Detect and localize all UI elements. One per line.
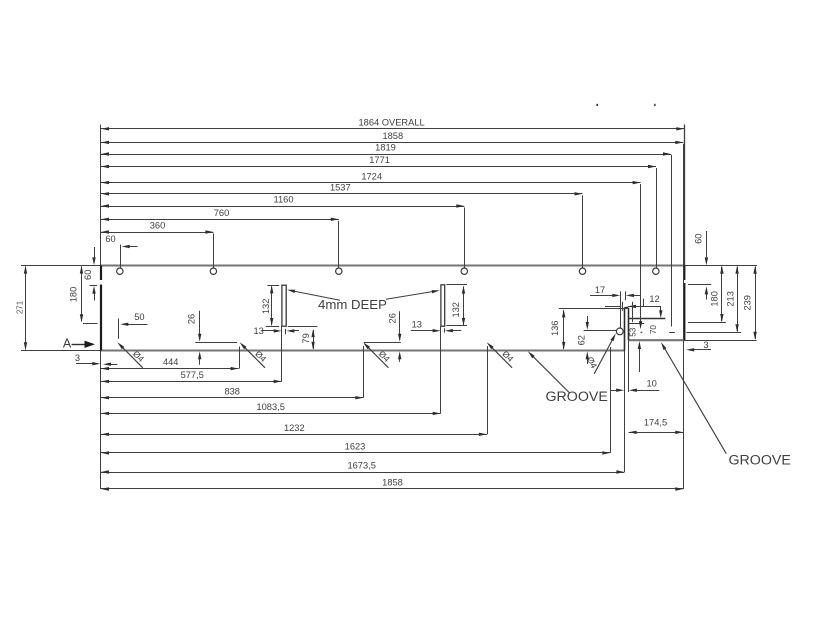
- svg-text:17: 17: [595, 285, 605, 295]
- dimension 1819 top: [101, 143, 671, 156]
- dimension 444 bottom: [101, 357, 239, 370]
- svg-text:1864 OVERALL: 1864 OVERALL: [359, 118, 425, 128]
- wire right edge extension up: [684, 125, 686, 266]
- hole H2 dia 4: [210, 268, 216, 274]
- leader dia4 groove 2: [240, 342, 269, 368]
- section arrow A: [63, 337, 95, 351]
- leader dia4 hole H7: [585, 333, 616, 373]
- hole H7 dia 4 near notch: [616, 328, 623, 335]
- wire bottom edge extension right: [684, 340, 756, 342]
- svg-text:1858: 1858: [382, 478, 403, 488]
- wire extension dim 1623 vertical: [610, 347, 612, 453]
- leader dia4 groove 1: [117, 342, 146, 368]
- svg-text:3: 3: [703, 340, 708, 350]
- dimension 180 right: [688, 266, 726, 323]
- hole H5 dia 4: [579, 268, 585, 274]
- dimension 3 left: [75, 353, 117, 366]
- svg-text:1771: 1771: [369, 155, 390, 165]
- dimension 26 second: [364, 311, 401, 362]
- dimension 760 top: [101, 208, 339, 221]
- dimension 26 first: [187, 311, 237, 365]
- dimension 50: [119, 312, 148, 339]
- dimension 132 second: [446, 285, 467, 326]
- label GROOVE left with leader: [528, 351, 608, 405]
- part groove profile line 70-level: [628, 318, 665, 320]
- svg-text:271: 271: [16, 300, 25, 314]
- part groove profile line 53-level: [628, 323, 644, 325]
- dimension 53: [628, 327, 641, 372]
- svg-text:838: 838: [224, 386, 240, 396]
- wire top edge extension right: [684, 265, 757, 267]
- wire extension dim 1858 vertical: [683, 144, 685, 489]
- wire extension hole H1 to dim 60: [120, 245, 122, 268]
- wire extension dim 577,5 vertical slot1 edge: [281, 326, 283, 381]
- svg-text:A: A: [63, 337, 72, 351]
- svg-text:1083,5: 1083,5: [256, 402, 284, 412]
- wire extension dim 1724 vertical with arrow: [639, 184, 642, 329]
- svg-text:13: 13: [254, 326, 264, 336]
- dimension 3 right: [686, 340, 711, 352]
- wire extension dim 1083,5 vertical slot2 edge: [440, 326, 442, 413]
- dimension 1537 top: [101, 183, 583, 196]
- dimension 79: [301, 329, 315, 350]
- part bottom edge left section: [101, 349, 624, 351]
- leader dia4 groove 4: [487, 342, 516, 368]
- part notch step horizontal: [624, 307, 628, 309]
- dimension 1232 bottom: [101, 423, 487, 436]
- part right groove vertical: [671, 155, 673, 327]
- dimension 1623 bottom: [101, 442, 610, 455]
- svg-text:13: 13: [412, 319, 422, 329]
- dimension 1673,5 bottom: [101, 461, 624, 474]
- svg-text:60: 60: [694, 234, 704, 244]
- hole H4 dia 4: [461, 268, 467, 274]
- svg-text:239: 239: [742, 295, 752, 311]
- part top edge: [101, 265, 684, 267]
- svg-text:79: 79: [301, 333, 311, 343]
- svg-text:70: 70: [649, 325, 658, 335]
- hole H1 dia 4: [117, 268, 123, 274]
- dimension 1864 OVERALL top: [101, 118, 684, 131]
- svg-text:3: 3: [75, 353, 80, 363]
- svg-text:62: 62: [576, 335, 586, 345]
- svg-text:213: 213: [726, 291, 736, 307]
- svg-text:136: 136: [550, 321, 560, 337]
- dimension 1160 top: [101, 195, 464, 208]
- part notch right vertical: [628, 308, 630, 340]
- svg-text:60: 60: [105, 234, 115, 244]
- wire extension hole H5 to dim 1537: [582, 195, 584, 268]
- svg-text:1537: 1537: [330, 183, 351, 193]
- wire extension hole H2 to dim 360: [213, 234, 215, 268]
- svg-text:360: 360: [150, 221, 166, 231]
- wire extension dim 444 vertical: [239, 347, 241, 369]
- dimension 12: [605, 294, 663, 322]
- svg-text:180: 180: [710, 291, 720, 307]
- label GROOVE right with leader: [661, 342, 791, 468]
- svg-text:1232: 1232: [284, 423, 305, 433]
- svg-text:12: 12: [649, 294, 659, 304]
- svg-text:180: 180: [69, 287, 79, 303]
- node speck right: [654, 104, 656, 106]
- wire extension hole H3 to dim 760: [338, 221, 340, 268]
- svg-text:1819: 1819: [375, 143, 396, 153]
- part right edge: [683, 266, 685, 341]
- wire extension hole H4 to dim 1160: [464, 208, 466, 268]
- svg-text:1160: 1160: [274, 195, 294, 205]
- leader dia4 groove 3: [363, 342, 392, 368]
- dimension 10: [611, 378, 660, 392]
- svg-text:132: 132: [261, 299, 271, 315]
- dimension 13 first: [254, 326, 299, 336]
- label 4mm DEEP with leaders: [287, 290, 440, 312]
- svg-text:174,5: 174,5: [644, 418, 667, 428]
- svg-text:577,5: 577,5: [181, 370, 204, 380]
- svg-text:760: 760: [214, 208, 230, 218]
- dimension 1724 top: [101, 171, 641, 184]
- svg-text:53: 53: [628, 327, 637, 337]
- dimension 360 top: [101, 221, 213, 234]
- dimension 17: [590, 285, 641, 328]
- svg-text:1858: 1858: [382, 131, 403, 141]
- part left edge: [100, 266, 102, 351]
- svg-text:1673,5: 1673,5: [347, 461, 375, 471]
- svg-text:26: 26: [187, 314, 197, 324]
- svg-text:10: 10: [647, 378, 657, 388]
- groove slot S1 13x132: [282, 285, 286, 326]
- node center dot: [641, 332, 643, 333]
- groove slot S2 13x132: [441, 285, 445, 326]
- wire top edge extension left: [21, 265, 101, 267]
- hole H3 dia 4: [336, 268, 342, 274]
- svg-text:26: 26: [388, 313, 398, 323]
- dimension 838 bottom: [101, 386, 363, 399]
- part bottom edge right section: [629, 339, 685, 341]
- hole H6 dia 4: [653, 268, 659, 274]
- svg-text:444: 444: [163, 357, 179, 367]
- dimension 180 left: [69, 266, 98, 324]
- svg-text:50: 50: [134, 312, 144, 322]
- svg-text:1623: 1623: [345, 442, 366, 452]
- wire extension hole H6 to dim 1771: [656, 168, 658, 268]
- dimension 1771 top: [101, 155, 656, 168]
- wire extension dim 1232 vertical: [487, 346, 489, 434]
- dimension 213 right: [669, 266, 741, 333]
- dimension 1083,5 bottom: [101, 402, 441, 415]
- svg-text:1724: 1724: [361, 171, 382, 181]
- svg-text:GROOVE: GROOVE: [546, 389, 608, 405]
- dimension 60 left: [83, 247, 97, 301]
- node speck left: [596, 104, 598, 106]
- dimension 577,5 bottom: [101, 370, 282, 383]
- dimension 132 first: [261, 285, 317, 326]
- dimension 1858 bottom: [101, 478, 683, 491]
- svg-text:60: 60: [83, 270, 93, 280]
- wire extension dim 1673,5 vertical: [624, 351, 626, 473]
- dimension 13 second: [411, 319, 462, 332]
- dimension 271 left: [16, 266, 28, 351]
- svg-text:132: 132: [451, 302, 461, 318]
- part notch left vertical: [624, 308, 626, 351]
- wire bottom edge extension left: [21, 350, 101, 352]
- dimension 60 top: [105, 234, 137, 248]
- dimension 1858 top: [101, 131, 683, 144]
- wire left common extension line: [100, 125, 102, 490]
- dimension 136: [550, 309, 628, 350]
- dimension 174,5: [629, 418, 684, 435]
- dimension 70: [649, 325, 658, 335]
- dimension 60 right: [688, 231, 711, 300]
- wire extension dim 838 vertical: [363, 346, 365, 398]
- dimension 239 right: [742, 266, 756, 340]
- dimension 62: [576, 316, 616, 364]
- svg-text:GROOVE: GROOVE: [729, 452, 791, 468]
- wire extension right part edge down: [628, 340, 630, 392]
- svg-text:4mm DEEP: 4mm DEEP: [318, 297, 387, 312]
